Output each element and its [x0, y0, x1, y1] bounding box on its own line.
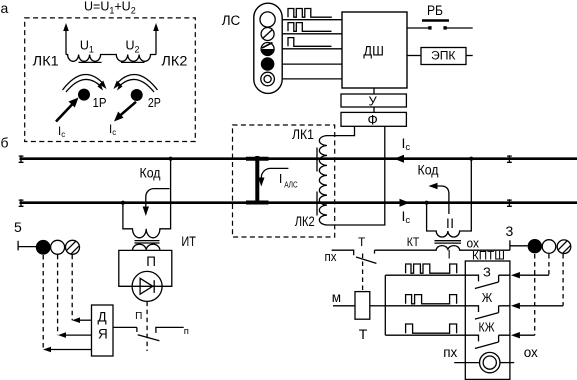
arrow on top rail (left): [394, 155, 404, 163]
svg-text:ох: ох: [524, 345, 538, 360]
I_ALS curved arrow: [261, 168, 288, 180]
svg-text:Т: Т: [359, 326, 368, 342]
svg-text:ЛК1: ЛК1: [33, 54, 59, 69]
svg-text:ИТ: ИТ: [181, 234, 196, 249]
wheelset axle: [255, 156, 259, 205]
decoder cell box DYa: [92, 305, 114, 356]
insulated joint top-right: [507, 155, 512, 163]
code waveform KZh on line3: [288, 38, 332, 47]
current arrow Ic out of 2P: [119, 102, 136, 117]
IT secondary winding: [133, 244, 160, 250]
svg-text:Iс: Iс: [402, 208, 411, 226]
wire LS line1: [282, 19, 342, 21]
arrow into Zh row: [511, 303, 520, 309]
svg-text:1Р: 1Р: [93, 95, 107, 110]
signal 5 yellow lamp: [51, 240, 65, 254]
dashed line green lamp to Zh row: [562, 254, 564, 306]
contact Zh: [465, 306, 510, 319]
LS lamp white (ring): [261, 72, 275, 86]
dashed wagon box: [233, 125, 335, 237]
wire DSh to U: [373, 88, 375, 94]
signal 5 mast: [17, 241, 19, 251]
row Zh wire: [385, 305, 465, 307]
wire U to F: [373, 107, 375, 112]
wire LS line5: [282, 78, 342, 80]
svg-text:I: I: [448, 247, 451, 261]
current arrow Ic into 1P: [56, 104, 73, 122]
LS lamp red-yellow (half): [261, 43, 274, 56]
svg-text:3: 3: [506, 223, 514, 239]
right terminal arrow up: [155, 28, 157, 55]
arrow DYa to green line: [77, 319, 91, 321]
locomotive receiving coil LK1/LK2: [319, 136, 327, 225]
svg-text:Ж: Ж: [482, 290, 493, 305]
svg-text:КТ: КТ: [407, 235, 420, 249]
decoder box DSh: [342, 12, 407, 88]
RB contact wire right: [445, 27, 473, 29]
svg-text:Код: Код: [418, 162, 439, 178]
svg-text:ЭПК: ЭПК: [431, 49, 456, 63]
wire DYa to contact P: [113, 326, 137, 328]
amplifier box U: [341, 94, 406, 107]
IT core: [135, 240, 160, 242]
waveform Z row: [406, 264, 457, 273]
svg-text:Код: Код: [140, 165, 161, 181]
dashed line red lamp to KZh row: [534, 254, 536, 335]
svg-text:У: У: [369, 94, 378, 109]
wire EPK out: [466, 55, 473, 57]
top rail: [20, 157, 577, 160]
KT core: [435, 240, 462, 242]
dashed control line from green lamp: [71, 255, 73, 321]
svg-text:Т: Т: [358, 235, 366, 249]
KPTSh box: [465, 261, 510, 379]
signal 3 yellow lamp: [542, 240, 556, 254]
wire LS line4: [282, 63, 342, 65]
contact T: [332, 250, 354, 255]
arrow into Z row: [511, 272, 520, 278]
svg-text:Д: Д: [98, 310, 107, 325]
svg-text:пх: пх: [443, 345, 457, 360]
transmitter box T: [355, 292, 370, 320]
coil U1+U2 wire with humps: [66, 55, 156, 62]
coil U1 core underline: [79, 61, 102, 63]
svg-text:U2: U2: [126, 39, 140, 55]
EPK box: [421, 48, 466, 65]
signal 3 mast: [509, 240, 511, 250]
dashed control line from yellow lamp: [57, 255, 59, 335]
mechanical link dashes from rectifier: [146, 302, 148, 351]
Kod arrow left: [146, 189, 170, 207]
bottom rail: [20, 201, 577, 204]
contact Z: [465, 275, 510, 288]
rail contact point 1P: [78, 89, 90, 101]
arrow into KZh row: [511, 332, 520, 338]
LS lamp green (empty): [260, 12, 275, 27]
motor symbol: [454, 362, 479, 364]
contact P: [136, 327, 138, 332]
dashed inset box: [25, 18, 196, 142]
svg-text:Ф: Ф: [368, 113, 378, 128]
svg-text:Iс: Iс: [402, 135, 411, 153]
svg-text:КПТШ: КПТШ: [472, 248, 505, 262]
svg-text:Iс: Iс: [58, 126, 65, 139]
coil U2 core underline: [121, 61, 145, 63]
svg-text:П: П: [146, 254, 156, 269]
svg-text:б: б: [1, 135, 9, 151]
junction bottom rail KT: [425, 201, 429, 205]
code waveform Z on line1: [288, 9, 332, 18]
insulated joint bottom-right: [507, 199, 512, 207]
left terminal arrow up: [65, 28, 67, 55]
wire LS line3: [282, 48, 342, 50]
wire DSh to EPK: [407, 55, 421, 57]
insulated joint bottom-left: [19, 199, 24, 207]
svg-text:П: П: [135, 311, 142, 322]
IT primary winding: [123, 159, 171, 238]
svg-text:I: I: [279, 172, 282, 186]
rectifier circle with diode: [132, 271, 162, 301]
Kod arrow right: [434, 186, 449, 214]
signal 5 green lamp (hatched): [66, 240, 80, 254]
wire LS line2: [282, 33, 342, 35]
dashed link contact T to box T: [362, 254, 364, 292]
svg-text:ЛС: ЛС: [222, 13, 241, 28]
svg-text:U1: U1: [80, 39, 94, 55]
rotation arcs over 1P: [63, 74, 105, 90]
signal 3 red lamp: [528, 239, 542, 253]
dashed control line from red lamp: [42, 255, 44, 350]
rail contact point 2P: [131, 89, 143, 101]
filter box F: [341, 112, 406, 126]
arrow DYa to red line: [48, 349, 91, 351]
coil core tick at top rail: [316, 148, 318, 172]
svg-text:а: а: [1, 0, 9, 16]
svg-text:U=U1+U2: U=U1+U2: [84, 0, 136, 16]
svg-text:м: м: [332, 290, 341, 305]
RB button bar: [422, 19, 449, 21]
svg-text:ДШ: ДШ: [363, 43, 384, 59]
svg-text:РБ: РБ: [427, 3, 443, 18]
insulated joint top-left: [19, 155, 24, 163]
RB contact wire left: [407, 27, 430, 29]
waveform KZh row: [406, 324, 457, 333]
wire F to LK1 coil top: [327, 126, 355, 135]
wire T box to bus: [370, 305, 386, 307]
svg-text:п: п: [184, 326, 189, 337]
signal 5 red lamp: [36, 240, 51, 255]
dashed line yellow lamp to Z row: [548, 254, 550, 275]
contact KZh: [465, 335, 510, 348]
LS lamp red (filled): [261, 57, 275, 71]
svg-text:2Р: 2Р: [148, 95, 161, 110]
svg-text:II: II: [446, 216, 454, 231]
svg-text:АЛС: АЛС: [284, 180, 298, 189]
LS lamp yellow (hatched): [261, 28, 274, 41]
svg-text:КЖ: КЖ: [479, 320, 495, 335]
relay box P: [119, 250, 172, 286]
RB contact dots: [428, 26, 431, 29]
waveform Zh row: [406, 295, 457, 304]
arrow DYa to yellow line: [63, 334, 91, 336]
arrow on bottom rail (right): [400, 199, 410, 207]
junction top rail IT: [169, 157, 173, 161]
bus vertical: [384, 275, 386, 335]
svg-text:Iс: Iс: [109, 124, 116, 137]
junction top rail KT: [469, 157, 473, 161]
signal 3 green lamp (hatched): [557, 240, 571, 254]
wire m to T box: [333, 305, 355, 307]
KT winding I and wires: [375, 246, 510, 251]
svg-text:ЛК2: ЛК2: [161, 54, 187, 69]
coil core tick at bottom rail: [316, 192, 318, 216]
svg-text:ЛК1: ЛК1: [292, 127, 314, 142]
row KZh wire: [385, 334, 465, 336]
svg-text:З: З: [483, 264, 491, 279]
row Z wire: [385, 274, 465, 276]
rotation arcs over 2P: [116, 74, 158, 90]
KT winding II: [427, 159, 472, 237]
svg-text:ЛК2: ЛК2: [295, 214, 315, 229]
wire F down to LK2 coil bottom: [327, 126, 385, 225]
svg-text:пх: пх: [325, 249, 337, 264]
svg-text:Я: Я: [98, 327, 108, 342]
svg-text:5: 5: [14, 219, 22, 235]
code waveform Zh on line2: [288, 23, 332, 32]
junction bottom rail IT: [121, 201, 125, 205]
